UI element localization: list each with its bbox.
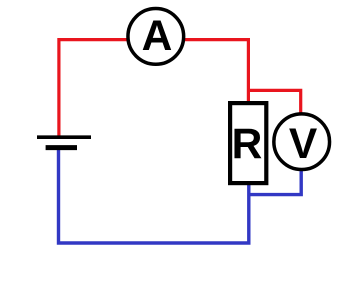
svg-text:A: A [142, 13, 173, 60]
svg-text:R: R [232, 121, 263, 168]
svg-text:V: V [289, 121, 318, 168]
wire red: battery positive up and across to ammeter left [59, 40, 128, 138]
voltmeter V [274, 114, 330, 170]
wire red: ammeter right to top-right corner, down to resistor top [184, 40, 248, 103]
battery: long positive plate [37, 135, 91, 139]
battery: short negative plate [46, 145, 77, 150]
resistor R [230, 103, 266, 183]
ammeter A [128, 9, 184, 65]
wire blue: battery negative down, bottom run, up to resistor bottom [59, 147, 249, 243]
wire red: branch node to voltmeter top [248, 90, 300, 113]
wire blue: branch node to voltmeter bottom [249, 170, 301, 195]
